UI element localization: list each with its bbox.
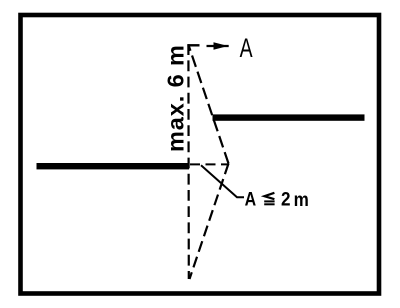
svg-text:2: 2 [281,188,291,209]
svg-text:A: A [240,33,253,63]
svg-text:max. 6 m: max. 6 m [162,44,188,152]
direction arrow head [214,42,229,49]
dashed diagonal upper (top point to right vertex) [189,47,229,164]
svg-text:A: A [245,188,257,210]
less-or-equal symbol angled stroke [264,193,274,199]
lower road surface bar (left) [37,163,190,169]
leader line to A&#8806;2m label [201,165,244,197]
vertical dashed line (max. 6 m extent) [187,44,190,279]
direction arrow shaft [207,45,229,47]
svg-text:m: m [294,189,309,210]
less-or-equal symbol bars [264,200,274,202]
top corner tick of vertical dashed line [187,44,199,46]
dashed diagonal lower (right vertex to bottom point) [190,164,229,280]
upper road surface bar (right) [213,114,365,120]
dashed horizontal segment at road level [190,163,229,165]
